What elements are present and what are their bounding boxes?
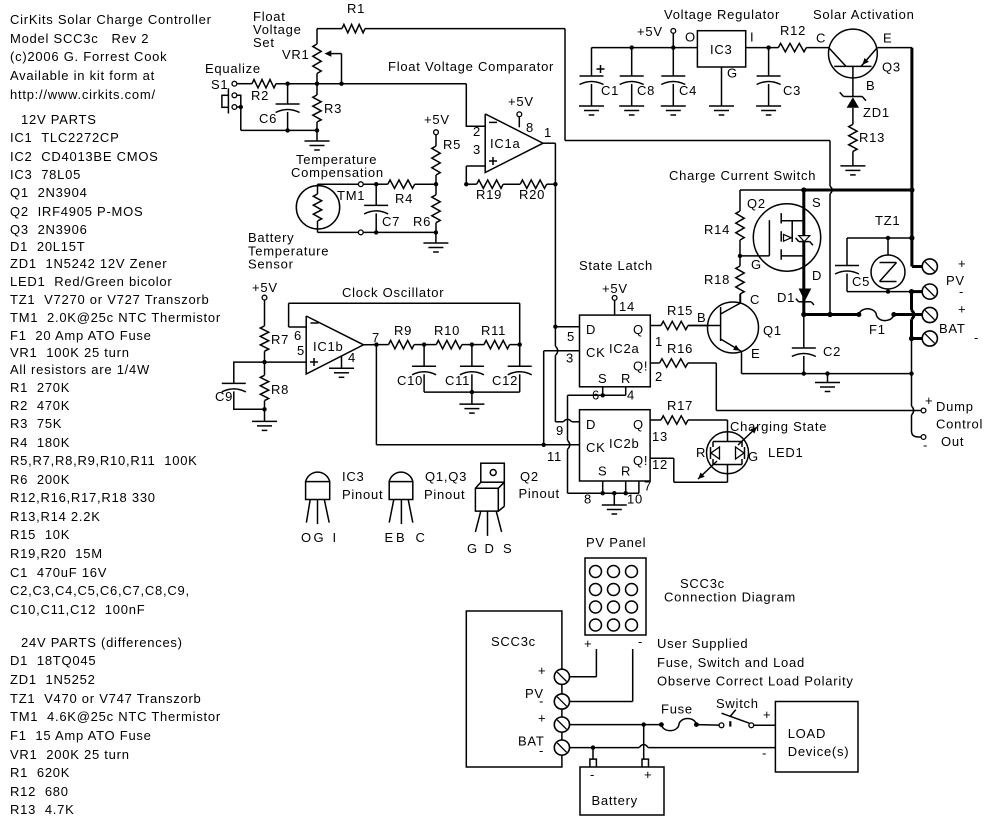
svg-text:G: G xyxy=(727,66,738,81)
capacitor C5 xyxy=(835,238,870,292)
svg-text:C2: C2 xyxy=(823,344,841,359)
svg-text:IC2b: IC2b xyxy=(609,436,639,451)
svg-text:D: D xyxy=(586,322,596,337)
svg-text:Dump: Dump xyxy=(936,399,974,414)
wire S1 to R2 xyxy=(237,83,252,85)
resistor R15 xyxy=(650,303,707,330)
svg-text:I: I xyxy=(750,30,754,45)
svg-text:Q: Q xyxy=(633,417,644,432)
svg-text:14: 14 xyxy=(619,299,635,314)
pinout IC3 TO-92 xyxy=(301,469,383,545)
ground below IC2b xyxy=(602,493,627,514)
svg-text:IC2a: IC2a xyxy=(609,341,639,356)
svg-text:VR1 100K 25 turn: VR1 100K 25 turn xyxy=(10,345,130,360)
svg-text:D1: D1 xyxy=(777,290,795,305)
svg-text:IC1 TLC2272CP: IC1 TLC2272CP xyxy=(10,130,120,145)
svg-text:S: S xyxy=(503,541,512,556)
ground below C1 xyxy=(579,106,604,115)
svg-text:-: - xyxy=(638,634,643,649)
svg-text:R13: R13 xyxy=(859,130,885,145)
pin labels IC2b xyxy=(547,423,668,507)
wire R16 to dump control xyxy=(688,363,921,411)
wire IC1b pin 6 feedback xyxy=(289,303,520,344)
resistor R1 xyxy=(317,1,365,33)
wire TZ1 C5 bottom to PV- xyxy=(847,289,922,294)
svg-text:C11: C11 xyxy=(445,373,470,388)
svg-text:C1 470uF 16V: C1 470uF 16V xyxy=(10,565,107,580)
wire emitter ground rail xyxy=(742,371,914,375)
svg-text:R4: R4 xyxy=(395,191,413,206)
resistor R13 xyxy=(849,124,885,165)
wire rail to IC1a pin 2 xyxy=(466,84,485,127)
resistor R19 xyxy=(466,180,503,202)
svg-text:LED1: LED1 xyxy=(768,445,804,460)
wire TZ1 C5 top xyxy=(847,236,912,240)
svg-text:Q1,Q3: Q1,Q3 xyxy=(425,469,467,484)
svg-text:C1: C1 xyxy=(601,83,619,98)
op-amp IC1b xyxy=(294,316,380,374)
transzorb TZ1 xyxy=(871,238,905,292)
svg-text:Q: Q xyxy=(633,322,644,337)
resistor R11 xyxy=(472,323,522,349)
svg-text:-: - xyxy=(974,330,979,345)
svg-text:Device(s): Device(s) xyxy=(788,744,850,759)
label Temperature Compensation xyxy=(291,152,384,180)
svg-text:CirKits Solar Charge Controlle: CirKits Solar Charge Controller xyxy=(10,12,212,27)
wire clock to latch xyxy=(376,345,579,447)
svg-text:R9: R9 xyxy=(394,323,412,338)
svg-text:E: E xyxy=(883,31,892,46)
flip-flop IC2b xyxy=(580,410,651,481)
svg-text:LED1 Red/Green bicolor: LED1 Red/Green bicolor xyxy=(10,274,173,289)
transistor Q3 xyxy=(816,29,901,96)
svg-text:TZ1 V7270 or V727 Transzorb: TZ1 V7270 or V727 Transzorb xyxy=(10,292,209,307)
svg-text:S: S xyxy=(598,371,607,386)
svg-text:Clock Oscillator: Clock Oscillator xyxy=(342,285,444,300)
svg-text:O: O xyxy=(685,30,696,45)
svg-text:TZ1 V470 or V747 Transzorb: TZ1 V470 or V747 Transzorb xyxy=(10,691,202,706)
resistor R5 xyxy=(432,137,461,186)
svg-text:+: + xyxy=(538,663,546,678)
capacitor C11 xyxy=(445,345,484,393)
svg-text:PV Panel: PV Panel xyxy=(586,535,646,550)
zener ZD1 xyxy=(840,92,890,124)
svg-text:+: + xyxy=(763,707,771,722)
svg-text:+: + xyxy=(584,636,592,651)
wire TM1 bottom rail xyxy=(318,229,439,235)
svg-text:VR1: VR1 xyxy=(282,47,310,62)
svg-text:R8: R8 xyxy=(271,382,289,397)
svg-text:F1 20 Amp ATO Fuse: F1 20 Amp ATO Fuse xyxy=(10,328,152,343)
svg-text:R6: R6 xyxy=(413,214,431,229)
12V parts list xyxy=(10,112,221,617)
svg-text:B: B xyxy=(866,78,875,93)
svg-text:R10: R10 xyxy=(434,323,460,338)
svg-text:C: C xyxy=(816,31,826,46)
svg-text:Float Voltage Comparator: Float Voltage Comparator xyxy=(388,59,554,74)
label Float Voltage Set xyxy=(253,9,302,50)
svg-text:5: 5 xyxy=(567,329,575,344)
mosfet Q2 xyxy=(740,190,822,315)
svg-text:G: G xyxy=(748,449,759,464)
resistor R18 xyxy=(704,256,744,303)
svg-text:F1 15 Amp ATO Fuse: F1 15 Amp ATO Fuse xyxy=(10,728,152,743)
svg-text:Observe Correct Load Polarity: Observe Correct Load Polarity xyxy=(657,674,854,689)
pv panel box xyxy=(585,558,646,635)
battery xyxy=(580,759,664,815)
svg-text:IC1a: IC1a xyxy=(490,136,520,151)
svg-text:+5V: +5V xyxy=(252,280,278,295)
svg-text:+5V: +5V xyxy=(637,24,663,39)
wire S1 lower contacts to bottom rail xyxy=(237,95,243,130)
wire IC1b output pin 7 xyxy=(364,342,389,346)
svg-text:R: R xyxy=(621,464,631,479)
svg-text:-: - xyxy=(762,746,767,761)
svg-text:IC1b: IC1b xyxy=(313,339,343,354)
svg-text:State Latch: State Latch xyxy=(579,258,653,273)
svg-text:6: 6 xyxy=(294,328,302,343)
svg-text:CK: CK xyxy=(586,345,606,360)
label Clock Oscillator xyxy=(342,285,444,300)
wire PV+ vertical xyxy=(909,190,921,267)
wire dump control minus xyxy=(912,374,922,437)
svg-text:1: 1 xyxy=(544,125,552,140)
svg-text:All resistors are 1/4W: All resistors are 1/4W xyxy=(10,362,150,377)
svg-text:-: - xyxy=(539,694,544,709)
transistor Q1 xyxy=(688,292,782,374)
svg-text:Q!: Q! xyxy=(633,359,648,374)
capacitor C8 xyxy=(620,48,655,106)
svg-text:+: + xyxy=(925,393,933,408)
svg-text:TZ1: TZ1 xyxy=(875,213,900,228)
capacitor C10 xyxy=(397,345,436,393)
capacitor C1 xyxy=(580,48,620,106)
svg-text:R13,R14 2.2K: R13,R14 2.2K xyxy=(10,509,101,524)
ground below R13 xyxy=(840,166,865,175)
svg-text:Pinout: Pinout xyxy=(519,486,560,501)
svg-text:VR1 200K 25 turn: VR1 200K 25 turn xyxy=(10,747,130,762)
wire oscillator cap bus xyxy=(424,390,520,394)
resistor R3 xyxy=(313,84,342,131)
title text block xyxy=(10,12,212,102)
resistor R10 xyxy=(424,323,474,349)
svg-text:4: 4 xyxy=(348,350,356,365)
power +5V at R5 xyxy=(424,112,450,146)
24V parts list xyxy=(10,635,221,817)
svg-text:C: C xyxy=(750,292,760,307)
svg-text:C8: C8 xyxy=(637,83,655,98)
svg-text:R11: R11 xyxy=(481,323,506,338)
svg-text:R6 200K: R6 200K xyxy=(10,472,70,487)
svg-text:Available in kit form at: Available in kit form at xyxy=(10,68,155,83)
svg-text:D: D xyxy=(586,417,596,432)
wire battery - to BAT- line xyxy=(592,748,594,760)
svg-text:Voltage Regulator: Voltage Regulator xyxy=(664,7,780,22)
svg-text:E: E xyxy=(385,530,394,545)
load box xyxy=(775,702,858,773)
wire battery + to BAT+ line xyxy=(643,725,645,760)
label Dump Control Out xyxy=(936,399,983,449)
svg-text:-: - xyxy=(959,284,964,299)
capacitor C7 xyxy=(364,184,400,232)
svg-text:Charging State: Charging State xyxy=(730,419,827,434)
wire BAT- sense down xyxy=(911,339,913,374)
svg-text:Battery: Battery xyxy=(592,793,638,808)
svg-text:C3: C3 xyxy=(783,83,801,98)
fuse user xyxy=(659,702,719,731)
switch S1 xyxy=(211,77,237,114)
svg-text:S: S xyxy=(812,195,821,210)
svg-text:11: 11 xyxy=(547,449,562,464)
svg-text:C6: C6 xyxy=(259,111,277,126)
svg-text:Model SCC3c Rev 2: Model SCC3c Rev 2 xyxy=(10,31,149,46)
resistor R14 xyxy=(704,190,766,258)
svg-text:R19,R20 15M: R19,R20 15M xyxy=(10,546,103,561)
svg-text:D: D xyxy=(485,541,495,556)
svg-text:D: D xyxy=(812,268,822,283)
svg-text:Q2: Q2 xyxy=(520,469,539,484)
svg-text:IC3: IC3 xyxy=(710,42,732,57)
flip-flop IC2a xyxy=(580,315,651,387)
svg-text:9: 9 xyxy=(556,423,564,438)
wire R1 to charge bus sense xyxy=(365,29,832,315)
svg-text:Q!: Q! xyxy=(633,453,648,468)
power +5V at R7 xyxy=(252,280,278,326)
terminal dump - xyxy=(921,435,928,453)
svg-text:(c)2006 G. Forrest Cook: (c)2006 G. Forrest Cook xyxy=(10,49,167,64)
svg-text:R1 270K: R1 270K xyxy=(10,380,70,395)
svg-text:C5: C5 xyxy=(852,274,870,289)
svg-text:Q1 2N3904: Q1 2N3904 xyxy=(10,185,88,200)
pinout Q2 package xyxy=(467,463,560,556)
svg-text:-: - xyxy=(590,767,595,782)
svg-text:Fuse, Switch and Load: Fuse, Switch and Load xyxy=(657,655,805,670)
svg-text:4: 4 xyxy=(627,388,635,403)
ground IC3 G pin xyxy=(709,67,734,115)
svg-text:F1: F1 xyxy=(869,322,886,337)
led LED1 bicolor xyxy=(696,420,804,479)
scc3c box xyxy=(466,611,562,767)
svg-text:IC3: IC3 xyxy=(342,469,364,484)
wire IC1a output pin 1 xyxy=(543,143,555,184)
wire +5V rail left of IC3 xyxy=(592,45,698,49)
power +5V at regulator output xyxy=(637,24,676,48)
svg-text:R: R xyxy=(621,371,631,386)
svg-text:LOAD: LOAD xyxy=(788,726,826,741)
svg-text:Fuse: Fuse xyxy=(661,702,693,717)
label SCC3c Connection Diagram xyxy=(664,576,796,605)
switch user xyxy=(716,696,759,728)
wire IC2a S R tie xyxy=(568,387,626,493)
svg-text:ZD1 1N5242 12V Zener: ZD1 1N5242 12V Zener xyxy=(10,256,167,271)
svg-text:R20: R20 xyxy=(519,187,545,202)
label Voltage Regulator xyxy=(664,7,780,22)
capacitor C4 xyxy=(661,48,697,106)
wire charge bus top xyxy=(740,187,915,192)
svg-text:5: 5 xyxy=(297,343,305,358)
terminal dump + xyxy=(921,393,933,413)
ground below C8 xyxy=(619,106,644,115)
svg-text:24V PARTS (differences): 24V PARTS (differences) xyxy=(21,635,183,650)
terminal PV- xyxy=(922,273,965,299)
svg-text:B: B xyxy=(697,310,706,325)
svg-text:R2: R2 xyxy=(251,88,269,103)
svg-text:SCC3c: SCC3c xyxy=(491,634,536,649)
svg-text:Set: Set xyxy=(253,35,275,50)
svg-text:ZD1 1N5252: ZD1 1N5252 xyxy=(10,672,96,687)
svg-text:Solar Activation: Solar Activation xyxy=(813,7,915,22)
wire BAT+ to fuse xyxy=(570,722,662,726)
svg-text:R2 470K: R2 470K xyxy=(10,398,70,413)
resistor R7 xyxy=(260,326,289,364)
svg-text:+: + xyxy=(644,767,652,782)
svg-text:R3: R3 xyxy=(324,101,342,116)
svg-text:Q2: Q2 xyxy=(747,196,766,211)
ground below R6 xyxy=(423,232,448,252)
svg-text:R18: R18 xyxy=(704,272,730,287)
svg-text:BAT: BAT xyxy=(939,321,966,336)
ground on rail xyxy=(815,374,840,392)
svg-text:G: G xyxy=(314,530,325,545)
svg-text:S1: S1 xyxy=(211,77,228,92)
svg-text:R16: R16 xyxy=(667,341,693,356)
svg-text:User Supplied: User Supplied xyxy=(657,636,748,651)
svg-text:C: C xyxy=(416,530,426,545)
svg-text:13: 13 xyxy=(652,429,668,444)
svg-text:7: 7 xyxy=(644,479,652,494)
terminal BAT- xyxy=(922,321,979,346)
svg-text:2: 2 xyxy=(473,124,481,139)
svg-text:R5,R7,R8,R9,R10,R11 100K: R5,R7,R8,R9,R10,R11 100K xyxy=(10,453,198,468)
terminal scc3c PV- xyxy=(525,686,570,709)
svg-text:Pinout: Pinout xyxy=(424,487,465,502)
pin labels IC2a xyxy=(566,329,663,403)
op-amp IC1a xyxy=(473,114,552,173)
svg-text:Connection Diagram: Connection Diagram xyxy=(664,590,796,605)
label Equalize xyxy=(205,61,261,76)
svg-text:R7: R7 xyxy=(271,332,289,347)
resistor R17 xyxy=(650,398,727,424)
wire R2 to VR1 rail xyxy=(276,82,466,86)
svg-text:Control: Control xyxy=(936,417,983,432)
svg-text:C12: C12 xyxy=(492,373,518,388)
resistor R12 xyxy=(778,23,828,52)
terminal BAT+ xyxy=(922,302,966,323)
svg-text:Q3: Q3 xyxy=(882,60,901,75)
svg-text:C10,C11,C12 100nF: C10,C11,C12 100nF xyxy=(10,602,145,617)
svg-text:-: - xyxy=(923,438,928,453)
wire BAT- to load with hop xyxy=(570,744,776,760)
svg-text:R13 4.7K: R13 4.7K xyxy=(10,802,75,817)
pinout Q1 Q3 TO-92 xyxy=(385,469,468,545)
svg-text:1: 1 xyxy=(655,334,663,349)
svg-text:E: E xyxy=(751,346,760,361)
label Solar Activation xyxy=(813,7,915,22)
wire Q3 emitter to bus xyxy=(877,48,912,190)
label Charge Current Switch xyxy=(669,168,816,183)
terminal PV+ xyxy=(922,256,966,274)
svg-text:Q1: Q1 xyxy=(763,323,782,338)
svg-text:R15 10K: R15 10K xyxy=(10,527,70,542)
svg-text:D1 18TQ045: D1 18TQ045 xyxy=(10,653,96,668)
svg-text:R1: R1 xyxy=(347,1,365,16)
svg-text:+: + xyxy=(958,256,966,271)
wire IC1a pin 3 xyxy=(464,166,485,186)
svg-text:Sensor: Sensor xyxy=(248,257,294,272)
terminal scc3c PV+ xyxy=(538,663,570,684)
svg-text:IC2 CD4013BE CMOS: IC2 CD4013BE CMOS xyxy=(10,149,159,164)
svg-text:D1 20L15T: D1 20L15T xyxy=(10,239,85,254)
power +5V at IC1a pin 8 xyxy=(508,94,534,127)
capacitor C2 xyxy=(792,315,841,374)
svg-text:C2,C3,C4,C5,C6,C7,C8,C9,: C2,C3,C4,C5,C6,C7,C8,C9, xyxy=(10,583,190,598)
svg-text:TM1: TM1 xyxy=(337,188,365,203)
wire panel - to PV- xyxy=(570,649,633,702)
svg-text:Equalize: Equalize xyxy=(205,61,261,76)
wire switch to load xyxy=(754,707,776,725)
svg-text:R12,R16,R17,R18 330: R12,R16,R17,R18 330 xyxy=(10,490,156,505)
svg-text:Compensation: Compensation xyxy=(291,165,384,180)
svg-text:R15: R15 xyxy=(667,303,693,318)
label State Latch xyxy=(579,258,653,273)
regulator IC3 xyxy=(685,30,754,81)
svg-text:R1 620K: R1 620K xyxy=(10,765,70,780)
trimmer VR1 xyxy=(282,29,342,84)
svg-text:CK: CK xyxy=(586,440,606,455)
svg-text:Charge Current Switch: Charge Current Switch xyxy=(669,168,816,183)
svg-text:12: 12 xyxy=(652,457,668,472)
svg-text:2: 2 xyxy=(655,369,663,384)
capacitor C9 xyxy=(215,362,265,409)
wire charge bus bottom xyxy=(801,312,859,317)
diode D1 xyxy=(777,289,814,306)
svg-text:+5V: +5V xyxy=(508,94,534,109)
svg-text:I: I xyxy=(333,530,337,545)
ground below R8 xyxy=(252,409,277,430)
svg-text:Q3 2N3906: Q3 2N3906 xyxy=(10,222,88,237)
svg-text:3: 3 xyxy=(473,142,481,157)
svg-text:+5V: +5V xyxy=(602,281,628,296)
svg-text:R: R xyxy=(696,445,706,460)
svg-text:R14: R14 xyxy=(704,222,730,237)
svg-text:R19: R19 xyxy=(476,187,502,202)
label panel + - xyxy=(584,634,643,651)
ground below C4 xyxy=(661,106,686,115)
wire IC3 input side xyxy=(746,45,779,49)
thermistor TM1 xyxy=(296,186,365,229)
svg-text:+: + xyxy=(538,711,546,726)
ground IC1b pin 4 xyxy=(329,357,354,378)
wire panel + to PV+ xyxy=(570,649,597,677)
label Float Voltage Comparator xyxy=(388,59,554,74)
svg-text:Pinout: Pinout xyxy=(342,487,383,502)
resistor R9 xyxy=(389,323,427,349)
svg-text:+: + xyxy=(958,302,966,317)
wire Q!12 to LED xyxy=(650,458,727,482)
resistor R20 xyxy=(503,180,557,202)
terminal scc3c BAT- xyxy=(518,734,570,759)
label Battery Temperature Sensor xyxy=(248,230,329,272)
svg-text:O: O xyxy=(301,530,312,545)
capacitor C3 xyxy=(757,48,802,106)
wire PV- to BAT- vertical with hop xyxy=(909,292,922,342)
svg-text:+5V: +5V xyxy=(424,112,450,127)
svg-text:R3 75K: R3 75K xyxy=(10,416,62,431)
svg-text:R4 180K: R4 180K xyxy=(10,435,70,450)
terminal scc3c BAT+ xyxy=(538,711,570,733)
label user supplied xyxy=(657,636,854,689)
ground below C3 xyxy=(756,106,781,115)
